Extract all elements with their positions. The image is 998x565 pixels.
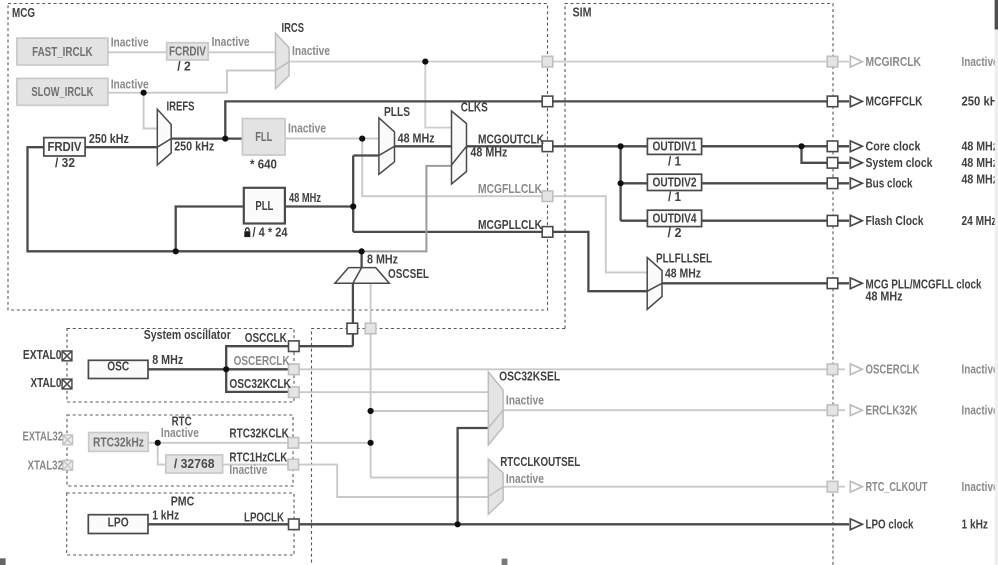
- divider OUTDIV1: [647, 139, 701, 155]
- label OSCERCLK (inactive): [234, 353, 290, 368]
- wire ERCLK32K net from OSC32KSEL (inactive): [503, 409, 845, 411]
- svg-text:Inactive: Inactive: [962, 362, 998, 377]
- svg-text:RTC32KCLK: RTC32KCLK: [229, 426, 289, 441]
- svg-text:SLOW_IRCLK: SLOW_IRCLK: [31, 84, 93, 99]
- label Flash Clock output: [866, 213, 997, 228]
- junction MCGOUTCLK / OUTDIV feed: [618, 143, 624, 149]
- label OSCCLK: [245, 330, 287, 345]
- svg-text:250 kHz: 250 kHz: [89, 131, 129, 146]
- svg-text:OSCERCLK: OSCERCLK: [234, 353, 290, 368]
- arrow RTC_CLKOUT (inactive): [850, 481, 862, 492]
- wire RTC32kHz to divider /32768 (inactive): [158, 443, 166, 465]
- wire FAST_IRCLK to FCRDIV (inactive): [108, 51, 167, 53]
- svg-text:OSCCLK: OSCCLK: [245, 330, 287, 345]
- label * 640 FLL: [250, 156, 277, 171]
- svg-text:MCG: MCG: [12, 5, 35, 20]
- divider FCRDIV (inactive): [167, 43, 209, 60]
- label / 2 FCRDIV: [177, 59, 191, 74]
- label 48 MHz MCGOUTCLK: [470, 145, 507, 160]
- wire OSCSEL output riser (8 MHz): [360, 251, 362, 268]
- arrow Bus clock: [850, 178, 862, 189]
- port RTC32KCLK into SIM (inactive): [365, 323, 376, 334]
- svg-text:Core clock: Core clock: [866, 139, 922, 154]
- svg-text:OUTDIV2: OUTDIV2: [653, 174, 697, 189]
- svg-text:48 MHz: 48 MHz: [962, 172, 998, 187]
- wire OUTDIV2 output to Bus clock: [702, 182, 849, 184]
- module box MCG: [8, 4, 548, 311]
- svg-text:48 MHz: 48 MHz: [289, 190, 321, 205]
- mux RTCCLKOUTSEL (inactive): [488, 459, 503, 514]
- svg-text:Inactive: Inactive: [288, 120, 326, 135]
- label Core clock output: [866, 139, 998, 154]
- label MCGPLLCLK: [478, 217, 542, 232]
- svg-text:250 kHz: 250 kHz: [962, 94, 998, 109]
- mux PLLFLLSEL: [647, 258, 662, 310]
- mux CLKS: [452, 111, 467, 184]
- arrow Core clock: [850, 141, 862, 152]
- svg-text:System oscillator: System oscillator: [144, 327, 231, 342]
- label MCGIRCLK output: [866, 54, 998, 69]
- svg-text:Inactive: Inactive: [962, 54, 998, 69]
- svg-text:OSC: OSC: [107, 358, 129, 373]
- port Core clock output: [827, 141, 838, 152]
- svg-text:EXTAL32: EXTAL32: [23, 428, 64, 443]
- svg-text:EXTAL0: EXTAL0: [23, 347, 62, 362]
- svg-text:IREFS: IREFS: [167, 98, 195, 113]
- port MCGFFCLK output: [827, 96, 838, 107]
- arrow MCGFFCLK: [850, 96, 862, 107]
- svg-text:/ 32768: / 32768: [174, 456, 215, 471]
- label / 1 OUTDIV1: [668, 153, 681, 168]
- svg-text:PLL: PLL: [255, 198, 273, 213]
- divider OUTDIV2: [647, 174, 701, 190]
- wire RTC32KCLK branch to OSC32KSEL (inactive): [371, 410, 489, 412]
- junction on OSCSEL feed / PLL input tap: [173, 248, 179, 254]
- svg-text:/ 1: / 1: [668, 153, 681, 168]
- wire IREFS output to FLL (250 kHz): [171, 137, 242, 139]
- label MCG PLL/MCGFLL clock output: [866, 276, 983, 303]
- junction on FLL output / MCGFLLCLK tap: [359, 136, 365, 142]
- svg-text:MCGFLLCLK: MCGFLLCLK: [478, 181, 542, 196]
- wire PLL output vertical split: [352, 156, 354, 232]
- svg-text:/ 32: / 32: [55, 155, 75, 170]
- port OSC32KCLK on System oscillator border (inactive): [289, 387, 300, 398]
- label 250 kHz IREFS out: [174, 138, 214, 153]
- arrow LPO clock: [850, 519, 862, 530]
- junction Core/System clock split: [798, 143, 804, 149]
- port MCGPLLCLK on MCG border: [542, 227, 553, 238]
- svg-text:OSC32KSEL: OSC32KSEL: [499, 368, 560, 383]
- svg-text:Inactive: Inactive: [111, 34, 149, 49]
- svg-text:PMC: PMC: [171, 494, 195, 509]
- label Inactive SLOW_IRCLK: [111, 77, 149, 92]
- svg-text:48 MHz: 48 MHz: [962, 139, 998, 154]
- wire OSC 8 MHz to CLKS input (not selected): [362, 166, 451, 252]
- label IREFS: [167, 98, 195, 113]
- oscillator LPO: [88, 515, 148, 534]
- port MCGFLLCLK on MCG border (inactive): [542, 191, 553, 202]
- svg-text:OUTDIV4: OUTDIV4: [653, 210, 698, 225]
- label MCGFFCLK output: [866, 94, 998, 109]
- wire RTC32KCLK to RTCCLKOUTSEL input (inactive): [371, 477, 489, 479]
- svg-text:Inactive: Inactive: [506, 471, 544, 486]
- svg-text:48 MHz: 48 MHz: [665, 266, 701, 281]
- label 48 MHz PLLS out: [398, 131, 435, 146]
- wire MCGIRCLK net from IRCS output (inactive): [289, 61, 849, 63]
- svg-text:1 kHz: 1 kHz: [152, 507, 179, 522]
- divider / 32768 (inactive): [166, 455, 223, 473]
- junction RTC32KCLK / OSC32KSEL tap: [368, 408, 374, 414]
- wire MCGIRCLK branch down to CLKS input (inactive): [425, 62, 451, 128]
- label ERCLK32K output: [866, 403, 998, 418]
- wire OUTDIV feed vertical: [619, 146, 621, 220]
- wire OSCCLK riser: [226, 346, 353, 369]
- label Inactive RTC1HzCLK: [229, 462, 267, 477]
- oscillator FAST_IRCLK (inactive): [17, 38, 108, 65]
- label MCGFLLCLK (inactive): [478, 181, 542, 196]
- svg-text:8 MHz: 8 MHz: [367, 251, 398, 266]
- svg-text:Bus clock: Bus clock: [866, 176, 914, 191]
- port OSCCLK on System oscillator border: [289, 341, 300, 352]
- wire OSCERCLK net (inactive): [294, 368, 845, 370]
- label System clock output: [866, 155, 998, 170]
- wire OUTDIV2 input: [621, 182, 648, 184]
- svg-text:System clock: System clock: [866, 155, 934, 170]
- scrollbar track: [995, 0, 998, 565]
- svg-text:/ 2: / 2: [668, 225, 682, 240]
- wire OSC output 8 MHz: [148, 368, 226, 370]
- pin XTAL32 (inactive): [28, 458, 73, 473]
- svg-text:OSCERCLK: OSCERCLK: [866, 362, 920, 377]
- label RTC_CLKOUT output: [866, 479, 998, 494]
- port MCGIRCLK output (inactive): [827, 56, 838, 67]
- label IRCS: [282, 20, 305, 35]
- wire PLL output 48 MHz: [285, 205, 353, 207]
- label RTCCLKOUTSEL: [500, 454, 580, 469]
- wire MCGFLLCLK net (inactive): [362, 139, 647, 273]
- svg-text:MCGFFCLK: MCGFFCLK: [866, 94, 923, 109]
- mux IREFS: [157, 109, 171, 165]
- junction RTC32KCLK riser: [368, 440, 374, 446]
- junction OSC output: [223, 366, 229, 372]
- wire LPO branch to OSC32KSEL input: [458, 428, 489, 524]
- svg-text:8 MHz: 8 MHz: [152, 352, 183, 367]
- wire PLLS output to CLKS (48 MHz): [395, 145, 452, 147]
- arrow Flash Clock: [850, 215, 862, 226]
- mux PLLS: [379, 118, 395, 174]
- label Inactive RTCCLKOUTSEL out: [506, 471, 544, 486]
- wire MCGOUTCLK net (48 MHz): [467, 145, 849, 147]
- wire SLOW_IRCLK branch to IREFS input (inactive): [144, 93, 158, 129]
- wire PLL input branch: [176, 207, 244, 252]
- wire PLLFLLSEL output (48 MHz): [662, 282, 849, 284]
- module box SIM: [312, 4, 834, 565]
- wire RTC_CLKOUT net from RTCCLKOUTSEL (inactive): [503, 486, 845, 488]
- label RTC32KCLK: [229, 426, 289, 441]
- port MCGFFCLK on MCG border: [542, 96, 553, 107]
- port OSCERCLK on System oscillator border (inactive): [289, 364, 300, 375]
- oscillator RTC32kHz (inactive): [89, 433, 149, 452]
- junction OUTDIV2 tap: [618, 180, 624, 186]
- label 48 MHz PLL out: [289, 190, 321, 205]
- label 1 kHz LPO out: [152, 507, 179, 522]
- scrollbar thumb: [995, 0, 998, 30]
- svg-text:SIM: SIM: [573, 5, 592, 20]
- wire FRDIV output to IREFS: [85, 146, 157, 148]
- label CLKS: [461, 99, 488, 114]
- wire RTC32KCLK net (inactive): [148, 442, 370, 444]
- divider OUTDIV4: [647, 210, 701, 226]
- label / 2 OUTDIV4: [668, 225, 682, 240]
- svg-text:Inactive: Inactive: [506, 392, 544, 407]
- wire OUTDIV4 output to Flash clock: [702, 220, 849, 222]
- label 8 MHz OSCSEL out: [367, 251, 398, 266]
- svg-text:CLKS: CLKS: [461, 99, 488, 114]
- svg-text:MCGPLLCLK: MCGPLLCLK: [478, 217, 542, 232]
- svg-text:Inactive: Inactive: [962, 479, 998, 494]
- svg-text:24 MHz: 24 MHz: [962, 213, 997, 228]
- label 8 MHz OSC out: [152, 352, 183, 367]
- label LPOCLK: [244, 509, 284, 524]
- label / 4 * 24 PLL with lock icon: [244, 225, 288, 240]
- wire OSCERCLK stub (dark until port): [226, 368, 294, 370]
- wire MCGPLLCLK net to PLLFLLSEL: [353, 232, 647, 291]
- port RTC_CLKOUT output (inactive): [827, 481, 838, 492]
- junction LPO / OSC32KSEL tap: [455, 521, 461, 527]
- wire RTC1HzCLK net (inactive): [223, 465, 489, 497]
- arrow OSCERCLK (inactive): [850, 364, 862, 375]
- svg-text:48 MHz: 48 MHz: [866, 289, 903, 304]
- module box System oscillator: [67, 327, 294, 402]
- pin EXTAL0: [23, 347, 72, 362]
- svg-text:FRDIV: FRDIV: [47, 139, 81, 154]
- arrow ERCLK32K (inactive): [850, 405, 862, 416]
- svg-text:PLLS: PLLS: [384, 104, 410, 119]
- svg-text:Inactive: Inactive: [161, 425, 199, 440]
- wire FRDIV input feed (from OSCSEL, bottom run): [28, 147, 362, 251]
- wire System clock branch: [802, 146, 850, 163]
- svg-text:Inactive: Inactive: [292, 43, 330, 58]
- svg-text:Inactive: Inactive: [111, 77, 149, 92]
- port RTC32KCLK on RTC border (inactive): [288, 438, 299, 449]
- arrow MCG PLL/MCGFLL clock: [850, 278, 862, 289]
- label PLLFLLSEL: [656, 251, 712, 266]
- port MCGIRCLK on MCG border (inactive): [542, 56, 553, 67]
- port OSCCLK into SIM: [347, 323, 358, 334]
- label 48 MHz PLLFLLSEL out: [665, 266, 701, 281]
- mux IRCS (inactive): [276, 33, 290, 88]
- port LPOCLK on PMC border: [289, 519, 300, 530]
- svg-text:MCGIRCLK: MCGIRCLK: [866, 54, 922, 69]
- junction on PLL output: [350, 203, 356, 209]
- svg-text:1 kHz: 1 kHz: [962, 517, 989, 532]
- wire OUTDIV4 input: [621, 220, 648, 222]
- svg-text:OSCSEL: OSCSEL: [388, 266, 429, 281]
- svg-text:Inactive: Inactive: [212, 34, 250, 49]
- svg-text:Inactive: Inactive: [962, 403, 998, 418]
- label OSC32KCLK: [229, 376, 291, 391]
- svg-text:IRCS: IRCS: [282, 20, 305, 35]
- divider FRDIV: [44, 138, 85, 156]
- svg-text:LPO clock: LPO clock: [866, 517, 915, 532]
- wire OSC32KCLK to OSC32KSEL (inactive): [294, 391, 489, 393]
- port System clock output: [827, 158, 838, 169]
- wire RTC32KCLK vertical to OSCSEL input (inactive): [370, 283, 372, 477]
- label PLLS: [384, 104, 410, 119]
- svg-text:OSC32KCLK: OSC32KCLK: [229, 376, 291, 391]
- arrow MCGIRCLK (inactive): [850, 56, 862, 67]
- wire PLL to PLLS input: [353, 154, 379, 156]
- junction OSCSEL output 8 MHz: [359, 248, 365, 254]
- wire LPO 1 kHz / LPOCLK net: [148, 523, 849, 525]
- svg-text:Inactive: Inactive: [229, 462, 267, 477]
- port MCG PLL/MCGFLL clock output: [827, 278, 838, 289]
- page marker bottom-center: [502, 559, 508, 565]
- label OSCERCLK output: [866, 362, 998, 377]
- svg-text:ERCLK32K: ERCLK32K: [866, 403, 918, 418]
- svg-text:RTC32kHz: RTC32kHz: [93, 434, 144, 449]
- svg-text:/ 2: / 2: [177, 59, 191, 74]
- svg-text:* 640: * 640: [250, 156, 277, 171]
- svg-text:250 kHz: 250 kHz: [174, 138, 214, 153]
- port OSCERCLK output (inactive): [827, 364, 838, 375]
- wire SLOW_IRCLK to IRCS input (inactive): [108, 71, 276, 93]
- wire OSCCLK to OSCSEL input: [352, 283, 354, 346]
- junction on MCGIRCLK net: [422, 59, 428, 65]
- junction on IREFS output / MCGFFCLK tap: [222, 136, 228, 142]
- port RTC1HzCLK on RTC border (inactive): [288, 459, 299, 470]
- svg-text:FCRDIV: FCRDIV: [169, 43, 206, 58]
- oscillator SLOW_IRCLK (inactive): [17, 78, 108, 105]
- FLL (inactive): [242, 119, 285, 155]
- junction RTC32kHz output: [155, 440, 161, 446]
- label / 1 OUTDIV2: [668, 189, 681, 204]
- label Inactive FAST_IRCLK: [111, 34, 149, 49]
- label Bus clock output: [866, 172, 998, 191]
- label LPO clock output: [866, 517, 989, 532]
- label Inactive IRCS out: [292, 43, 330, 58]
- label / 32 FRDIV: [55, 155, 75, 170]
- port ERCLK32K output (inactive): [827, 405, 838, 416]
- svg-text:Flash Clock: Flash Clock: [866, 213, 925, 228]
- svg-text:XTAL32: XTAL32: [28, 458, 64, 473]
- svg-text:FLL: FLL: [255, 129, 272, 144]
- label Inactive FCRDIV out: [212, 34, 250, 49]
- module box RTC: [67, 414, 293, 486]
- label OSC32KSEL: [499, 368, 560, 383]
- pin EXTAL32 (inactive): [23, 428, 73, 444]
- label Inactive OSC32KSEL out: [506, 392, 544, 407]
- wire MCGFFCLK net (250 kHz): [225, 101, 849, 138]
- arrow System clock: [850, 157, 862, 168]
- svg-text:XTAL0: XTAL0: [31, 375, 62, 390]
- label Inactive RTC32kHz: [161, 425, 199, 440]
- label 250 kHz FRDIV out: [89, 131, 129, 146]
- svg-text:/ 4 * 24: / 4 * 24: [253, 225, 289, 240]
- svg-text:FAST_IRCLK: FAST_IRCLK: [32, 44, 93, 59]
- module box PMC: [67, 493, 294, 555]
- svg-text:LPOCLK: LPOCLK: [244, 509, 284, 524]
- svg-text:RTC_CLKOUT: RTC_CLKOUT: [866, 479, 928, 494]
- wire FCRDIV to IRCS input (inactive): [208, 51, 275, 53]
- svg-text:PLLFLLSEL: PLLFLLSEL: [656, 251, 712, 266]
- svg-text:48 MHz: 48 MHz: [962, 155, 998, 170]
- label Inactive FLL out: [288, 120, 326, 135]
- PLL: [244, 188, 285, 224]
- svg-text:48 MHz: 48 MHz: [398, 131, 435, 146]
- svg-text:LPO: LPO: [108, 515, 129, 530]
- label OSCSEL: [388, 266, 429, 281]
- svg-text:RTCCLKOUTSEL: RTCCLKOUTSEL: [500, 454, 580, 469]
- port Bus clock output: [827, 178, 838, 189]
- wire FLL output to PLLS (inactive): [285, 138, 379, 140]
- pin XTAL0: [31, 375, 72, 390]
- page corner marker bottom-left: [0, 558, 6, 565]
- svg-text:/ 1: / 1: [668, 189, 681, 204]
- svg-text:48 MHz: 48 MHz: [470, 145, 507, 160]
- wire OUTDIV1 output to Core clock: [702, 145, 849, 147]
- oscillator OSC: [88, 358, 148, 378]
- port MCGOUTCLK on MCG border: [542, 141, 553, 152]
- mux OSC32KSEL (inactive): [488, 372, 503, 445]
- label RTC1HzCLK: [229, 450, 287, 465]
- wire OSC32KCLK stub from OSC: [226, 369, 294, 392]
- mux OSCSEL: [335, 268, 389, 284]
- label MCGOUTCLK: [478, 131, 544, 146]
- junction on SLOW_IRCLK net: [141, 90, 147, 96]
- port Flash clock output: [827, 215, 838, 226]
- svg-text:OUTDIV1: OUTDIV1: [653, 139, 697, 154]
